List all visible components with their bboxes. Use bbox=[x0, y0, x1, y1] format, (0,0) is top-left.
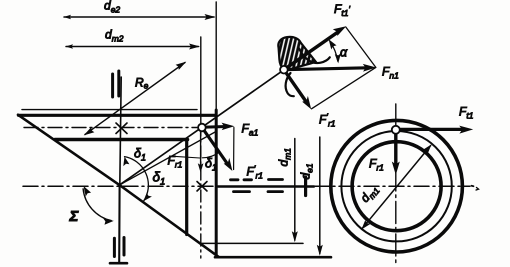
bottom mean extension line bbox=[200, 242, 304, 244]
thick tick on axis bbox=[304, 177, 307, 196]
alpha arc bbox=[329, 39, 341, 63]
svg-text:α: α bbox=[340, 46, 348, 60]
X mark axis/pitch crossing bbox=[116, 123, 127, 134]
tooth lower hook curve bbox=[286, 73, 294, 96]
pinion mean section dash-dot bbox=[200, 124, 202, 258]
end view circles bbox=[331, 120, 463, 252]
node 1 force F_a1 bbox=[202, 123, 235, 130]
d_m1 diagonal dimension bbox=[361, 144, 431, 229]
Sigma arc bbox=[83, 186, 114, 225]
pinion back face bbox=[185, 140, 188, 235]
axis foot bar bbox=[110, 262, 127, 265]
svg-text:dm1: dm1 bbox=[358, 182, 382, 207]
extension line x=201 (top) bbox=[200, 37, 202, 124]
svg-text:Fn1: Fn1 bbox=[382, 65, 399, 81]
tooth flank S-curve bbox=[299, 49, 330, 64]
apex delta arc bbox=[123, 157, 152, 202]
shaft break marks group 2 bbox=[268, 180, 283, 192]
wheel 2 axis through gear bbox=[120, 77, 121, 186]
node 1 circle bbox=[198, 124, 206, 132]
svg-text:de2: de2 bbox=[104, 0, 120, 15]
wheel 2 axis break bars (top) bbox=[111, 74, 114, 97]
force F_n1 (tooth) bbox=[284, 64, 376, 72]
dimension d_m1 vertical bbox=[292, 139, 298, 243]
delta arc at node 1 bbox=[203, 152, 220, 158]
force F_t1' (tooth) bbox=[284, 26, 346, 69]
force F'_r1 (tooth) bbox=[284, 70, 311, 110]
node 1 force F'_r1 bbox=[202, 128, 232, 172]
pitch line apex to tooth node (D1) bbox=[120, 70, 284, 185]
pinion axis dash-dot left bbox=[23, 185, 218, 187]
node 3 circle (end view) bbox=[392, 126, 400, 134]
wheel 2 rim bottom (thick) bbox=[55, 138, 188, 142]
shaft break marks group 1 bbox=[231, 180, 252, 192]
svg-text:δ1: δ1 bbox=[153, 170, 166, 188]
wheel 2 axis below apex bbox=[118, 186, 121, 263]
svg-text:F′r1: F′r1 bbox=[247, 164, 264, 181]
axis end dot bbox=[472, 185, 474, 187]
root cone line (D3) bbox=[120, 132, 217, 186]
wheel 2 tip line (thin top) bbox=[22, 109, 197, 111]
svg-text:Fr1: Fr1 bbox=[369, 157, 384, 173]
Re dimension arrow bbox=[84, 62, 187, 136]
svg-text:Σ: Σ bbox=[69, 208, 80, 225]
force F_r1 (end view) bbox=[392, 132, 400, 175]
F_r1 thin arrow (node 1, down) bbox=[198, 131, 204, 173]
pinion axis dash-dot right bbox=[314, 185, 470, 187]
svg-text:Ft1′: Ft1′ bbox=[334, 2, 350, 18]
svg-text:dm2: dm2 bbox=[105, 28, 124, 44]
left pitch generator through apex to pinion bottom bbox=[18, 115, 219, 257]
wheel 2 axis break bars (bottom) bbox=[113, 238, 116, 256]
parallelogram thin sides (tooth) bbox=[346, 27, 376, 67]
pinion bottom edge thick bbox=[215, 256, 331, 259]
svg-text:dm1: dm1 bbox=[277, 148, 293, 167]
dimension d_e2 line bbox=[64, 14, 216, 20]
svg-text:de1: de1 bbox=[299, 163, 315, 179]
svg-text:Ft1: Ft1 bbox=[459, 105, 474, 121]
node 2 circle (tooth) bbox=[280, 66, 288, 74]
extension line x=216 (top) bbox=[215, 2, 217, 110]
parallelogram side at node 1 bbox=[233, 128, 235, 170]
svg-text:Re: Re bbox=[135, 76, 149, 91]
pinion shaft solid segment bbox=[218, 185, 314, 187]
tooth section hatched bbox=[278, 37, 316, 70]
dimension d_m2 line bbox=[66, 44, 201, 50]
end view vertical centerline bbox=[395, 104, 397, 266]
wheel 2 top face (thick) bbox=[19, 114, 216, 117]
F_r1 label leader bbox=[174, 156, 200, 158]
force F_t1 (end view) bbox=[399, 126, 473, 134]
svg-text:δ1: δ1 bbox=[134, 147, 146, 163]
svg-text:F′r1: F′r1 bbox=[319, 112, 336, 129]
wheel 2 pitch line (dash-dot) bbox=[24, 127, 214, 129]
dimension d_e1 vertical bbox=[317, 137, 323, 256]
pinion front face (thick) bbox=[215, 110, 218, 257]
X mark pinion mean/axis crossing bbox=[197, 182, 207, 192]
svg-text:Fa1: Fa1 bbox=[242, 122, 259, 138]
